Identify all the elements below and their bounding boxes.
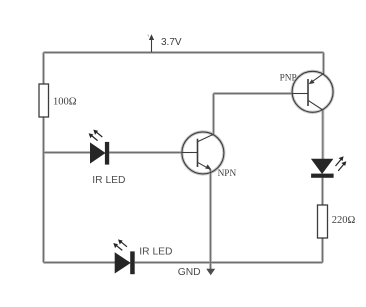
wire top rail [44, 52, 324, 54]
wire bottom-right riser [322, 238, 324, 263]
wire top-right drop to PNP emitter [323, 53, 325, 74]
svg-text:GND: GND [178, 267, 201, 278]
wire NPN emitter to ground [210, 170, 212, 270]
wire PNP collector to LED3 [322, 110, 324, 159]
IR LED D2 [113, 239, 134, 274]
transistor Q1 NPN [182, 132, 224, 174]
wire NPN collector riser [213, 94, 215, 135]
svg-text:220Ω: 220Ω [332, 215, 356, 226]
svg-text:PNP: PNP [280, 74, 297, 84]
IR LED D1 [89, 130, 110, 165]
svg-text:IR LED: IR LED [92, 175, 125, 186]
soft-edge halo underlay (decorative, mimics source blur) [44, 53, 334, 270]
LED D3 [311, 156, 346, 178]
resistor R2 220ohm [318, 205, 328, 238]
svg-text:100Ω: 100Ω [53, 97, 77, 108]
svg-text:3.7V: 3.7V [161, 37, 182, 48]
wire left rail lower [43, 117, 45, 263]
wire 220 ohm to LED3 [322, 178, 324, 205]
wire left rail upper [43, 53, 45, 85]
wire bottom rail left [44, 262, 116, 264]
resistor R1 100ohm [39, 84, 49, 117]
wire branch to IR LED1 [44, 152, 91, 154]
transistor Q2 PNP [292, 71, 333, 112]
wire bottom rail right [135, 262, 323, 264]
power 3.7V arrow [148, 34, 154, 52]
ground symbol [206, 269, 215, 276]
svg-text:IR LED: IR LED [139, 246, 172, 257]
svg-text:NPN: NPN [218, 169, 237, 179]
wire IR LED1 to NPN base [109, 152, 182, 154]
wire NPN collector to PNP base [214, 93, 293, 95]
